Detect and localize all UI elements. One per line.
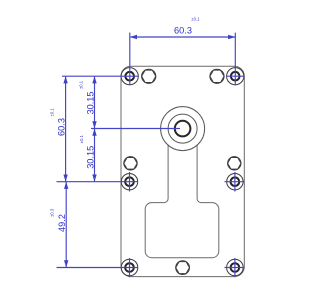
crosshair h mid-right hole — [225, 181, 245, 183]
svg-text:60.3: 60.3 — [174, 26, 192, 36]
arrow 49.2 bottom — [64, 260, 68, 267]
crosshair v mid-right hole — [234, 172, 236, 192]
hex hole top-left — [142, 69, 156, 83]
arrow top dim right — [228, 35, 235, 39]
dim line 30.15 upper — [94, 76, 96, 128]
arrow 60.3 v top — [63, 76, 67, 83]
hex hole mid-left — [124, 157, 137, 170]
mounting hole bottom-right — [227, 259, 244, 276]
dim line 60.3 top — [131, 36, 236, 38]
svg-text:±0.1: ±0.1 — [79, 134, 84, 143]
arrow 30.15 lower top — [92, 129, 96, 136]
shaft boss middle circle — [168, 114, 197, 143]
extension line center horizontal — [91, 128, 180, 130]
svg-text:30.15: 30.15 — [85, 92, 95, 115]
shaft boss outer circle — [161, 107, 205, 151]
svg-text:±0.1: ±0.1 — [79, 80, 84, 89]
mounting hole mid-right — [227, 174, 243, 190]
crosshair h top-right hole — [227, 75, 245, 77]
extension line top-right vertical — [234, 33, 236, 86]
arrow 30.15 upper top — [92, 76, 96, 83]
dim line 30.15 lower — [94, 129, 96, 182]
mounting hole top-right — [227, 68, 244, 85]
gearbox body outline (bottle shape) — [145, 145, 219, 258]
crosshair h bottom-right hole — [225, 267, 245, 269]
mounting hole top-left — [121, 68, 138, 85]
hex hole mid-right — [228, 157, 241, 170]
crosshair v mid-left hole — [129, 172, 131, 192]
svg-text:49.2: 49.2 — [57, 214, 67, 232]
extension line row3 horizontal — [57, 267, 139, 269]
arrow 30.15 upper bottom — [92, 121, 96, 128]
extension line top-left vertical — [129, 33, 131, 86]
svg-text:±0.1: ±0.1 — [50, 108, 55, 117]
mounting hole mid-left — [121, 174, 137, 190]
arrow 49.2 top — [64, 182, 68, 189]
crosshair v bottom-right hole — [234, 258, 236, 277]
svg-text:30.15: 30.15 — [85, 146, 95, 169]
blue annotation work — [57, 33, 245, 278]
arrow 60.3 v bottom — [63, 175, 67, 182]
mounting hole bottom-left — [121, 259, 138, 276]
hex hole top-right — [210, 69, 224, 83]
arrow 30.15 lower bottom — [92, 175, 96, 182]
dim line 49.2 — [65, 182, 67, 268]
hex hole bottom-center — [176, 261, 190, 275]
arrow top dim left — [130, 35, 137, 39]
svg-text:60.3: 60.3 — [56, 118, 66, 136]
plate outline — [121, 66, 244, 276]
dim line 60.3 left vertical — [65, 76, 67, 182]
svg-text:±0.3: ±0.3 — [50, 208, 55, 217]
shaft bore (bold) — [175, 121, 191, 137]
extension line row1 horizontal — [62, 75, 138, 77]
svg-text:±0.1: ±0.1 — [191, 17, 200, 22]
crosshair v bottom-left hole — [129, 258, 131, 277]
extension line row2 horizontal — [57, 181, 139, 183]
